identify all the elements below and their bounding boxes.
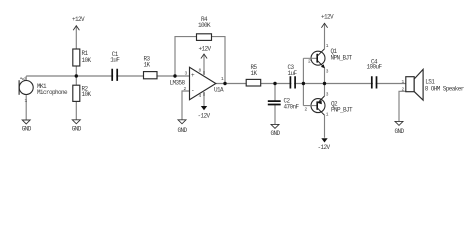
svg-text:8 OHM Speaker: 8 OHM Speaker [425, 85, 465, 92]
svg-text:GND: GND [22, 126, 32, 133]
svg-text:470nF: 470nF [284, 103, 300, 110]
svg-text:1uF: 1uF [110, 57, 120, 64]
svg-text:LM358: LM358 [169, 79, 185, 86]
svg-text:NPN_BJT: NPN_BJT [331, 55, 353, 62]
svg-text:1K: 1K [250, 70, 257, 77]
svg-text:GND: GND [394, 128, 404, 135]
svg-text:-: - [191, 87, 194, 94]
svg-text:U1A: U1A [214, 87, 224, 94]
svg-text:100uF: 100uF [366, 64, 382, 71]
svg-text:10K: 10K [82, 91, 92, 98]
svg-text:10K: 10K [82, 57, 92, 64]
svg-text:GND: GND [270, 130, 280, 137]
svg-text:GND: GND [72, 126, 82, 133]
svg-text:1K: 1K [143, 62, 150, 69]
svg-text:LS1: LS1 [425, 78, 435, 85]
svg-text:+12V: +12V [72, 16, 85, 23]
svg-text:100K: 100K [198, 22, 211, 29]
svg-text:PNP_BJT: PNP_BJT [331, 106, 353, 113]
svg-text:R1: R1 [82, 50, 89, 57]
svg-text:GND: GND [177, 127, 187, 134]
svg-text:+12V: +12V [198, 46, 211, 53]
svg-text:+12V: +12V [321, 14, 334, 21]
svg-text:-12V: -12V [317, 144, 330, 151]
svg-text:Microphone: Microphone [37, 89, 68, 96]
svg-text:1uF: 1uF [288, 70, 298, 77]
svg-text:-12V: -12V [197, 113, 210, 120]
